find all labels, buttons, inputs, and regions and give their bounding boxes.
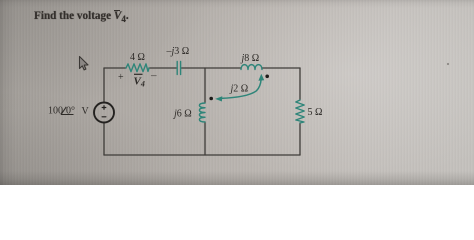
svg-text:V: V: [82, 106, 90, 117]
svg-text:+: +: [118, 72, 124, 83]
svg-text:5 Ω: 5 Ω: [308, 107, 323, 118]
svg-text:V4: V4: [134, 76, 145, 89]
svg-text:4 Ω: 4 Ω: [130, 52, 145, 63]
svg-text:j2 Ω: j2 Ω: [229, 84, 249, 95]
svg-text:j6 Ω: j6 Ω: [172, 109, 192, 120]
svg-text:100: 100: [48, 106, 63, 117]
svg-text:–: –: [150, 70, 157, 82]
svg-text:j8 Ω: j8 Ω: [240, 53, 260, 64]
svg-text:–j3 Ω: –j3 Ω: [166, 46, 190, 57]
